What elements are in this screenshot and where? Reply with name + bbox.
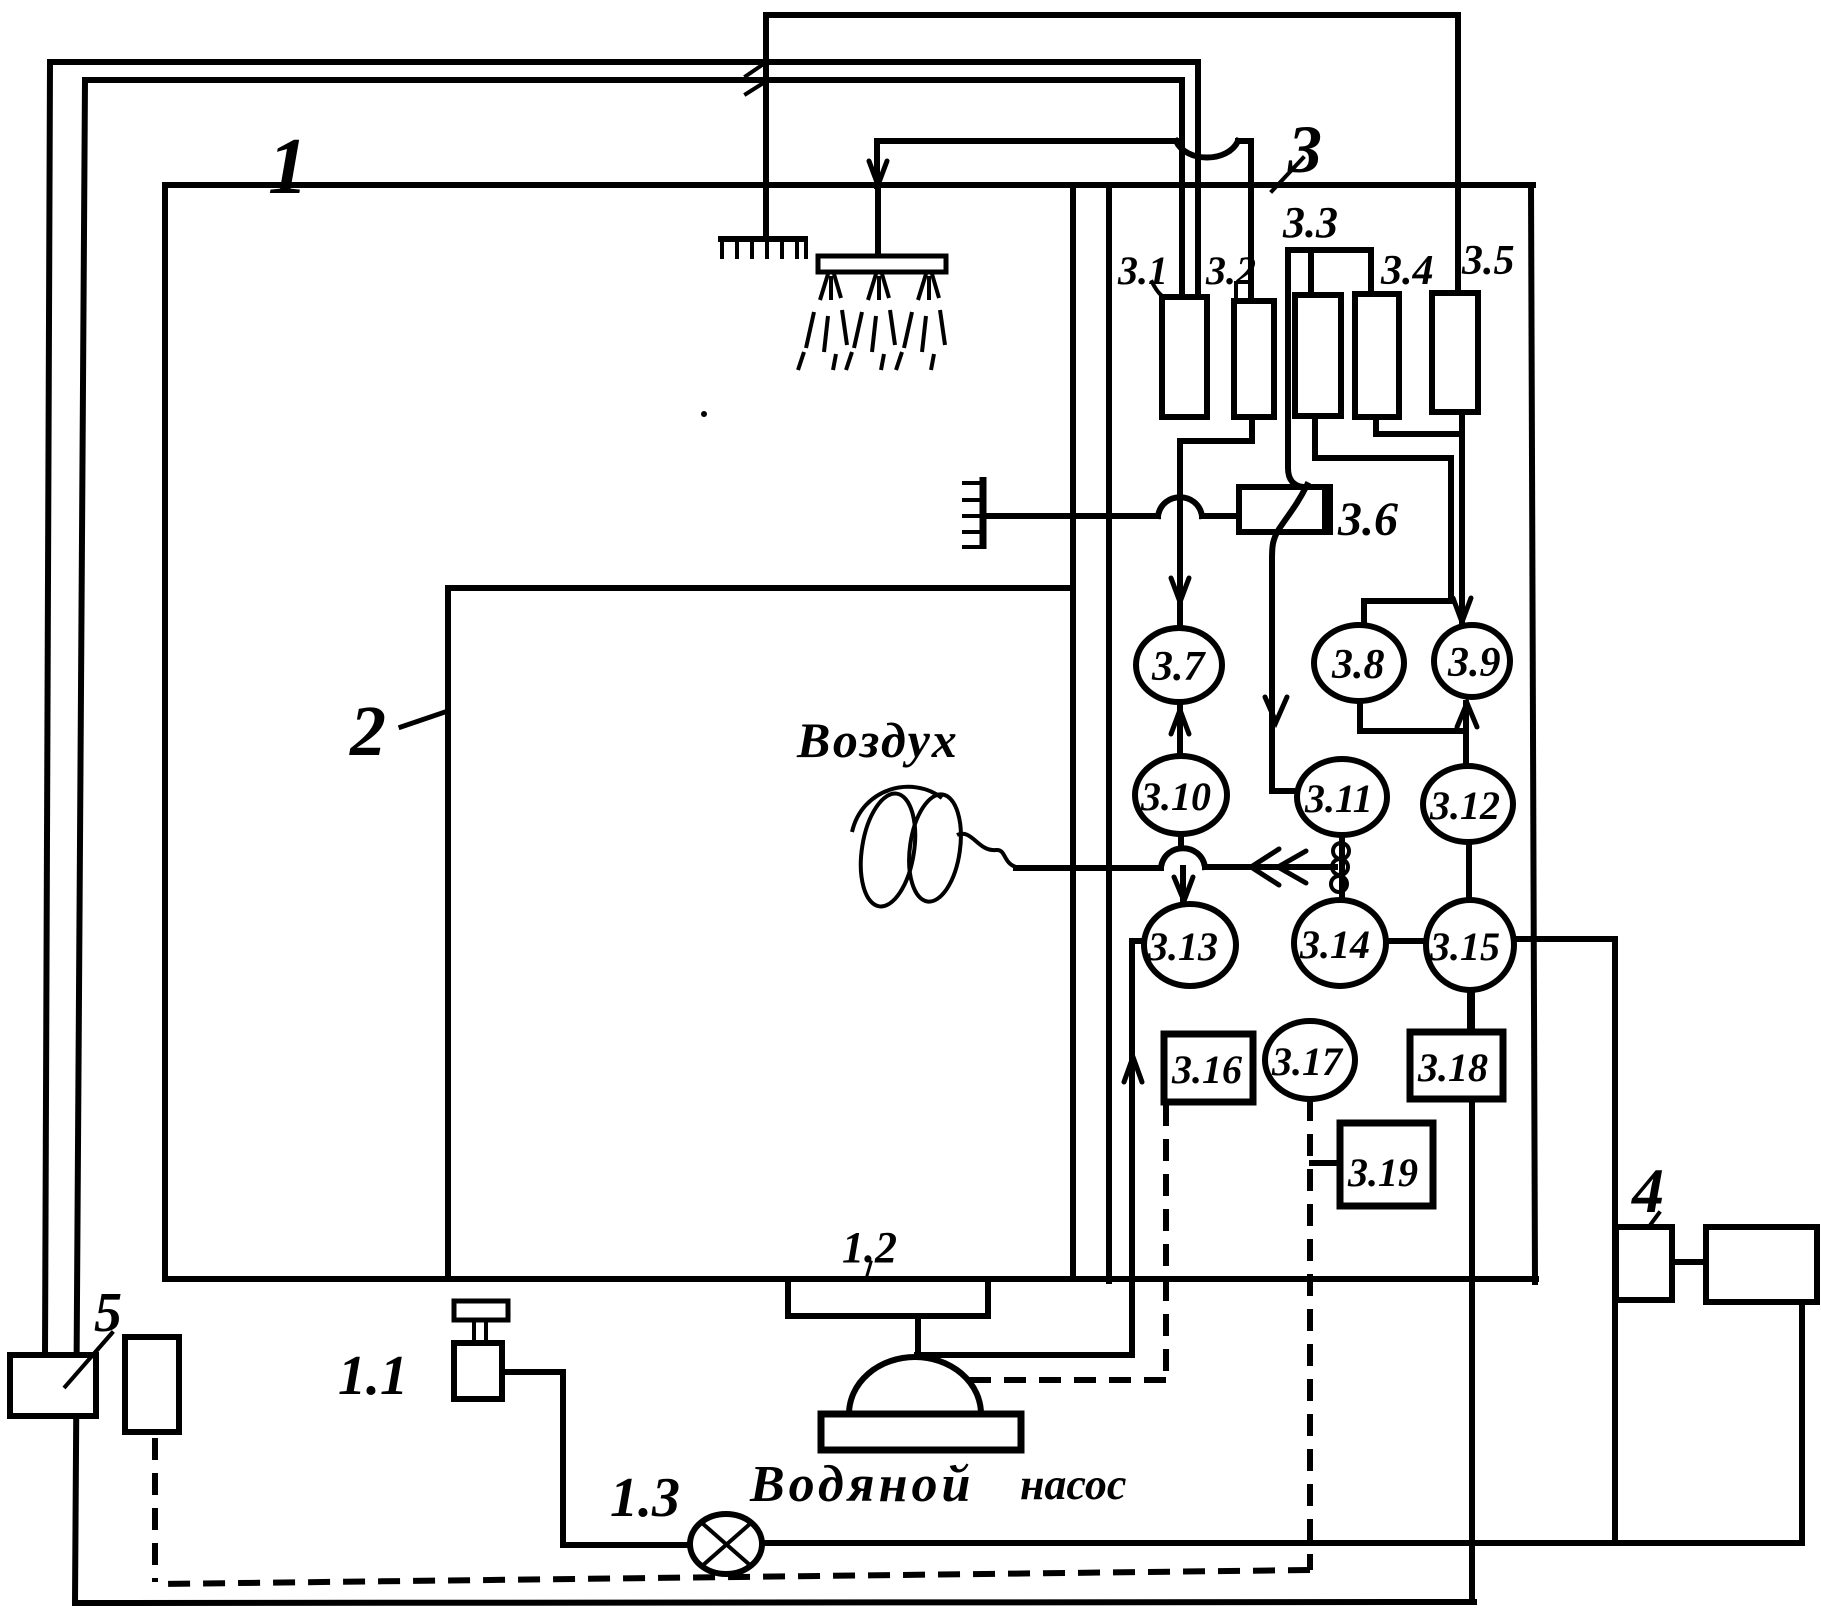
svg-text:2: 2 — [349, 691, 386, 771]
svg-text:3.1: 3.1 — [1117, 248, 1168, 293]
svg-text:3.3: 3.3 — [1282, 198, 1338, 247]
svg-text:3.7: 3.7 — [1151, 644, 1207, 690]
svg-text:1: 1 — [268, 123, 308, 211]
svg-text:3.12: 3.12 — [1429, 783, 1500, 828]
svg-text:3.2: 3.2 — [1205, 248, 1256, 293]
svg-text:3.18: 3.18 — [1417, 1045, 1488, 1090]
svg-text:3.19: 3.19 — [1347, 1150, 1418, 1195]
svg-text:3.5: 3.5 — [1461, 238, 1515, 284]
svg-text:1.1: 1.1 — [338, 1345, 408, 1407]
svg-text:3.9: 3.9 — [1447, 640, 1501, 686]
svg-text:3.17: 3.17 — [1271, 1039, 1344, 1084]
svg-text:1.2: 1.2 — [842, 1223, 897, 1272]
svg-text:насос: насос — [1020, 1460, 1126, 1509]
svg-text:3.4: 3.4 — [1380, 248, 1434, 294]
svg-text:3.16: 3.16 — [1171, 1047, 1242, 1092]
svg-text:3.10: 3.10 — [1140, 774, 1211, 819]
svg-text:3.15: 3.15 — [1429, 924, 1500, 969]
svg-text:4: 4 — [1631, 1155, 1664, 1226]
svg-text:3: 3 — [1287, 111, 1322, 187]
svg-text:1.3: 1.3 — [610, 1467, 680, 1529]
svg-text:3.6: 3.6 — [1337, 493, 1398, 546]
svg-text:5: 5 — [94, 1282, 122, 1344]
svg-text:3.14: 3.14 — [1299, 922, 1370, 967]
svg-text:Воздух: Воздух — [796, 712, 959, 768]
svg-text:3.11: 3.11 — [1304, 776, 1373, 821]
svg-text:Водяной: Водяной — [749, 1456, 974, 1513]
svg-text:3.8: 3.8 — [1331, 642, 1385, 688]
svg-text:3.13: 3.13 — [1147, 924, 1218, 969]
